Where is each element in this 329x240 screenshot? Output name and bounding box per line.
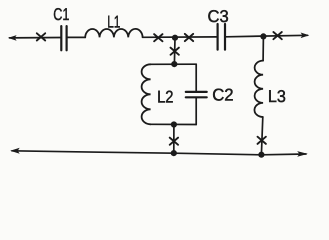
wire: C2 bottom lead [195,97,197,124]
terminal x-mark top-left [37,33,45,40]
terminal x-mark top-right [273,32,281,39]
wire: C1 to L1 [68,36,86,38]
wire: C2 top lead [195,64,197,92]
node: bottom rail junction at L3 [258,152,264,158]
terminal x-mark after L1 [154,34,162,41]
x-mark on tank feed wire [171,48,179,55]
svg-text:C3: C3 [208,7,229,26]
svg-text:C2: C2 [212,85,233,104]
svg-text:L2: L2 [157,87,173,106]
capacitor C1 [61,26,66,50]
wire: tank bottom to bottom rail [173,125,175,154]
inductor L3 [254,61,263,117]
capacitor C2 [186,92,207,97]
node: top junction of L3 branch [260,33,266,39]
wire: top rail left segment with left arrow [8,35,61,41]
wire: L1 to C3 [143,36,217,38]
inductor L1 [85,29,142,37]
wire: tank top, L2 to C2 [151,63,197,65]
wire: top junction down to tank [173,38,176,64]
terminal x-mark before C3 [185,34,193,41]
wire: L3 bottom lead [261,117,262,155]
node: tank bottom junction [171,121,177,127]
wire: tank bottom, L2 to C2 [151,123,197,125]
node: top junction of L2/C2 branch [172,35,178,41]
svg-text:L1: L1 [107,13,120,32]
svg-text:L3: L3 [268,87,286,106]
x-mark on tank ground lead [170,138,178,145]
wire: bottom rail with arrows both ends [10,148,308,157]
inductor L2 [142,64,151,124]
node: bottom rail junction at tank [171,150,177,156]
node: tank top junction [171,61,177,67]
capacitor C3 [218,24,225,50]
svg-text:C1: C1 [53,5,69,24]
wire: C3 to right arrow [226,33,309,39]
x-mark on L3 ground lead [258,137,266,144]
wire: L3 top lead [262,36,264,60]
